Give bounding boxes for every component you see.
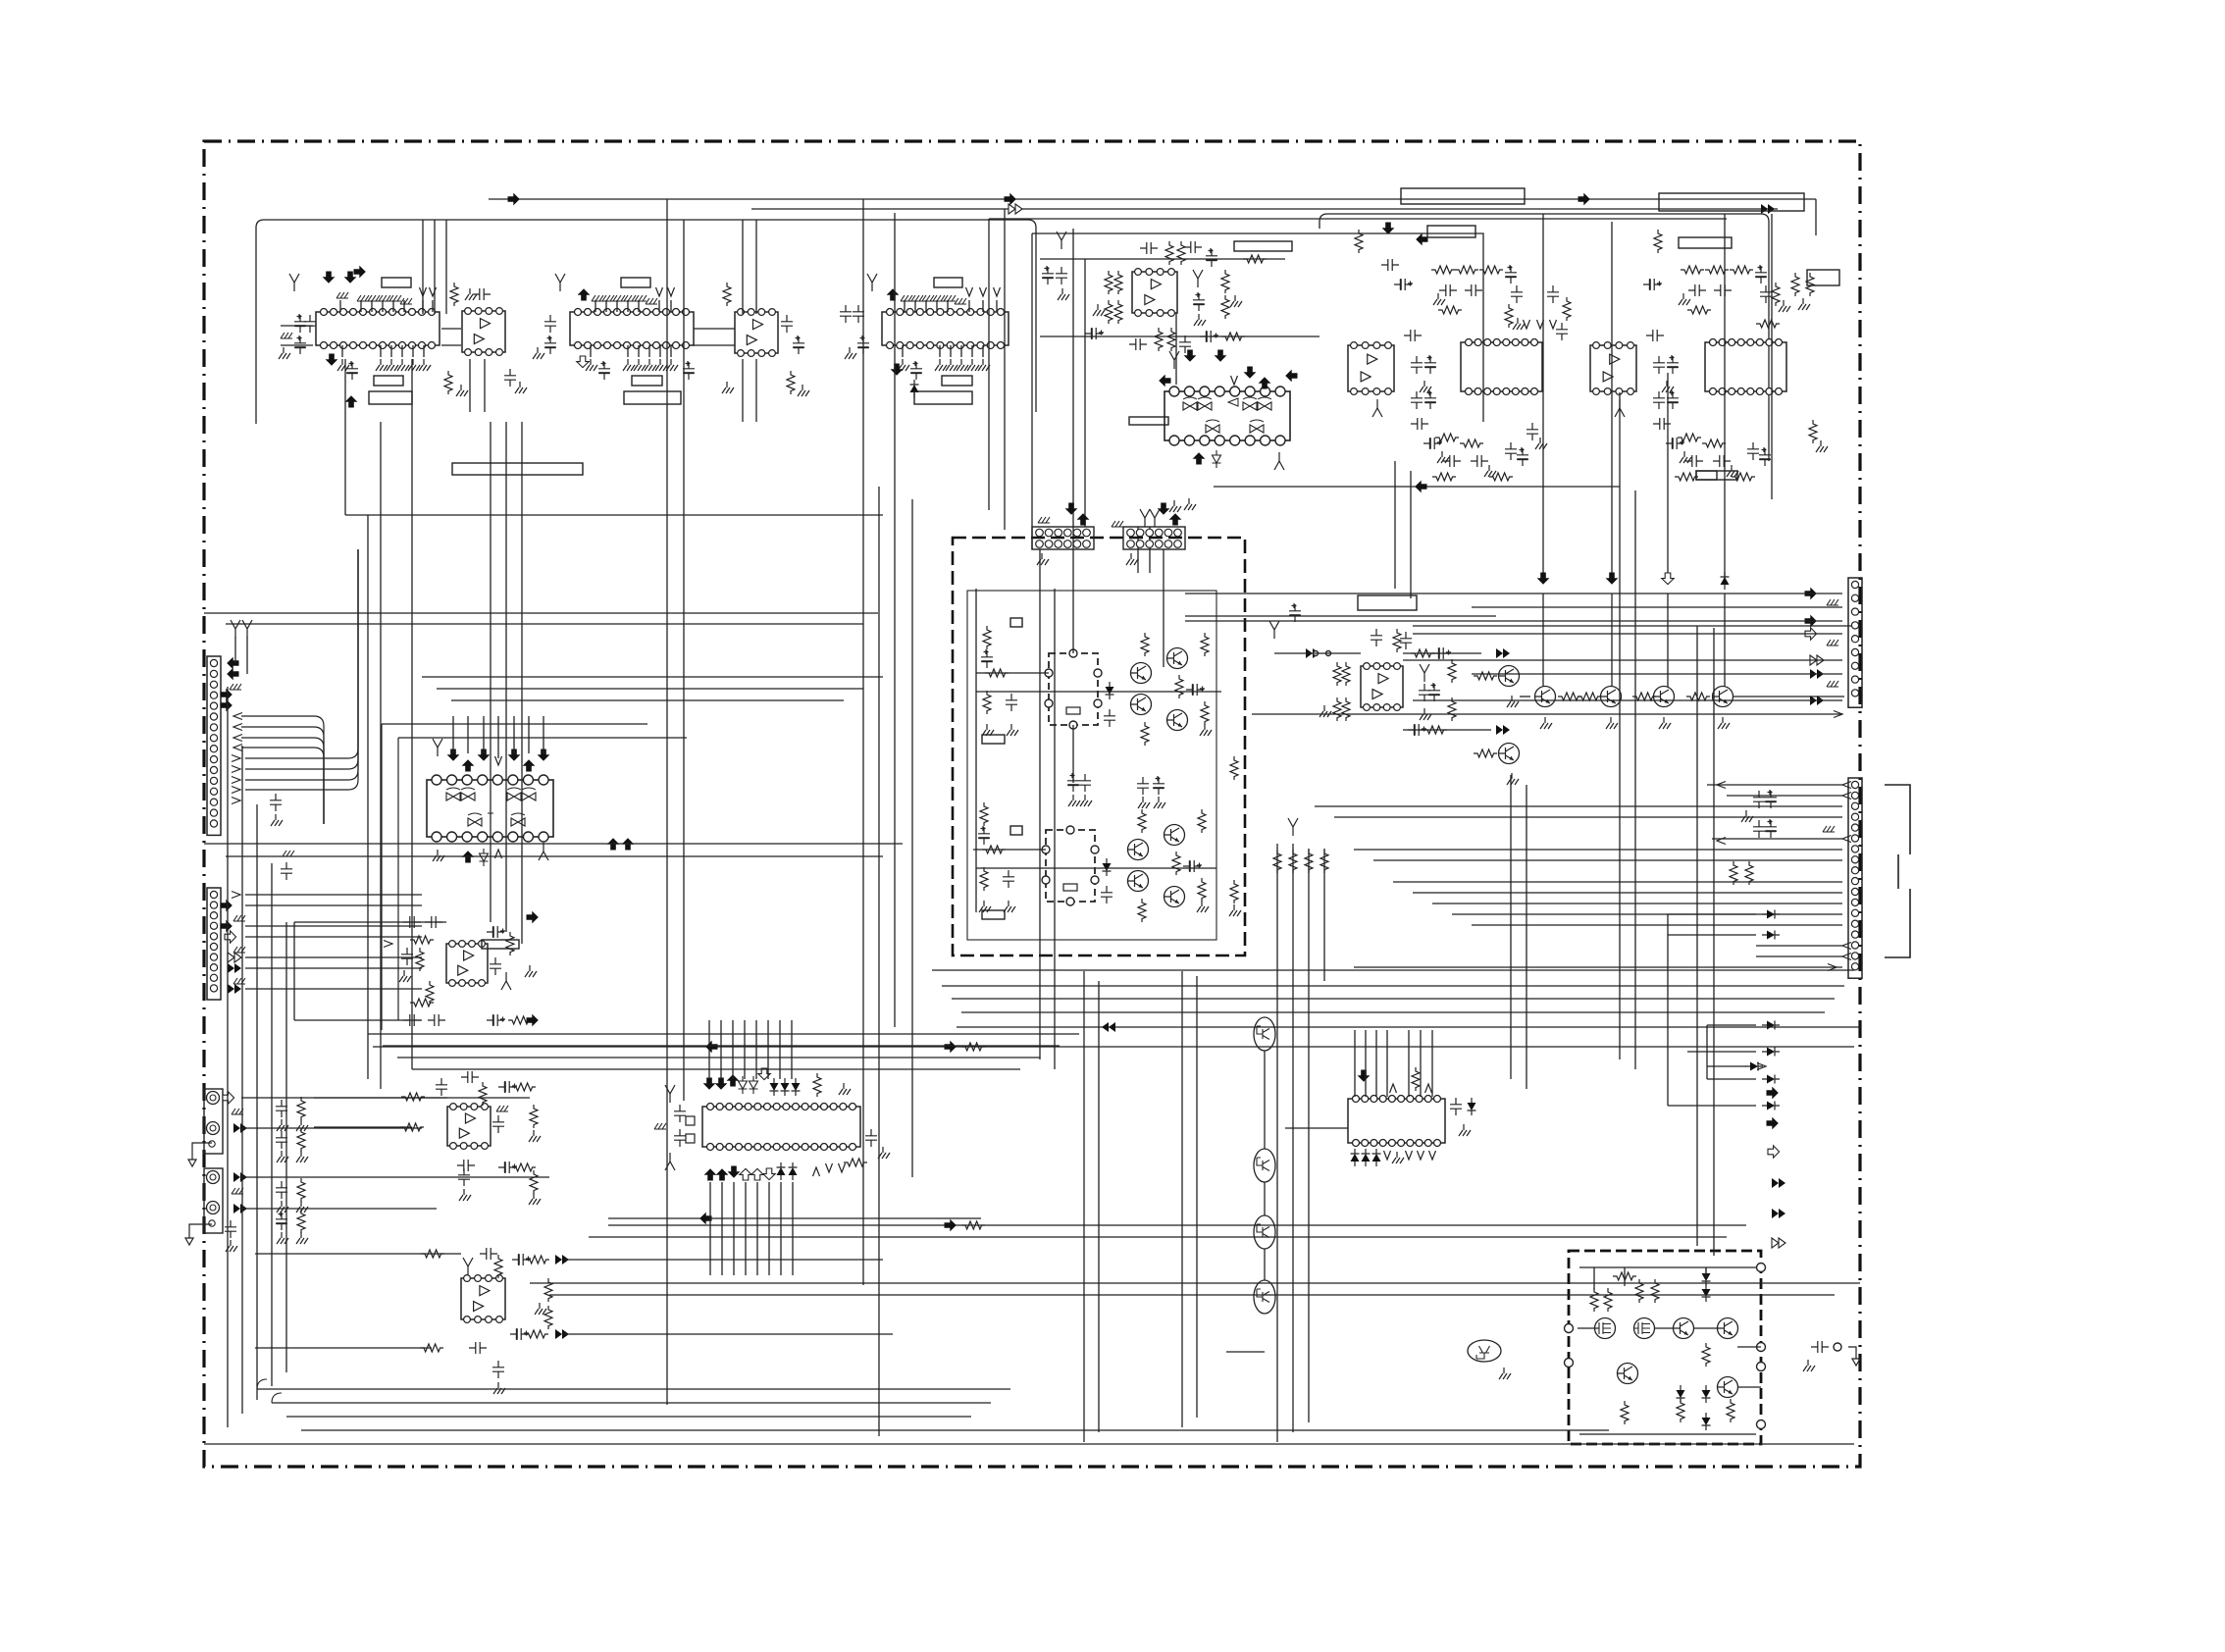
label IC105 part [914, 391, 972, 404]
IC103 bottom passives [577, 356, 695, 380]
J102 arrows [233, 1172, 247, 1182]
IC303 surroundings [400, 1071, 541, 1205]
label under IC105 [942, 376, 972, 386]
connector CN301 [1032, 527, 1094, 549]
wire misc center verticals [1083, 971, 1085, 1442]
IC105 left net [840, 274, 877, 359]
wire upper mid horizontals [422, 676, 883, 678]
wire IC303 nets [314, 1097, 447, 1099]
IC202 bottom symbols [1169, 500, 1181, 512]
IC301 bottom symbols [433, 850, 444, 861]
transistor Q601 [1674, 1318, 1694, 1339]
H top passives [1355, 223, 1571, 341]
op-amp IC302 [446, 941, 488, 987]
right diode column [1762, 910, 1780, 919]
op-amp IC102 [462, 308, 505, 356]
label over IC105 [934, 278, 962, 287]
connector CN401 [1848, 578, 1862, 707]
wire top bus 3 [989, 218, 1727, 220]
label IC202 part [1129, 417, 1168, 425]
wire cluster H frame [1319, 214, 1769, 461]
IC202 below arrows [1193, 450, 1221, 468]
wire IC101-IC102 link [441, 328, 461, 330]
wire IC201 box [1032, 233, 1483, 422]
wire RY301 caps below [1067, 773, 1079, 792]
wire IC306 verticals up [708, 1020, 710, 1079]
wire center box inner loop [967, 591, 1216, 940]
IC501 right [1450, 1098, 1476, 1136]
wire jack feeds [241, 1097, 530, 1099]
label RY302a [1010, 826, 1022, 835]
wire bottom long rails [608, 1224, 1746, 1226]
wire IC202 drop lines [1072, 229, 1074, 549]
RY301 left passives [981, 626, 1018, 736]
label box IC101 part no [369, 391, 412, 404]
photo transistor PH3 [1254, 1215, 1275, 1249]
I top passives [1643, 230, 1814, 328]
wire top bus 2 [751, 208, 1778, 210]
label I bottom [1696, 471, 1737, 480]
wire IC306 verticals down [709, 1182, 711, 1275]
overall board dashed border [204, 141, 1860, 1467]
RY302 diode/cap [1101, 858, 1112, 903]
op-amp IC303 [447, 1104, 491, 1150]
IC305 surroundings [420, 1248, 569, 1394]
transistor Q602 [1718, 1318, 1738, 1339]
transistor Q501 oval [1468, 1340, 1501, 1362]
wire legend feed [1707, 1065, 1746, 1067]
right cap cluster [1717, 782, 1777, 845]
H between ICs [1372, 330, 1436, 417]
wire arrows on bus [508, 193, 520, 206]
wire far right cap + terminal [1811, 1341, 1829, 1353]
IC202 internal VCA cells [1183, 397, 1271, 433]
transistor Q304 [1167, 710, 1188, 731]
jack RC filters [276, 1097, 308, 1244]
wire center-right horizontals [1274, 652, 1361, 654]
FET M2 [1634, 1318, 1655, 1339]
label under IC103 [632, 376, 662, 386]
wire IC103 pin stubs top [595, 300, 596, 312]
IC302 surroundings [384, 911, 539, 1027]
wire transistor row verticals [1542, 594, 1544, 687]
CN101 antennas [231, 620, 240, 638]
wire IC301 loops [382, 724, 687, 1030]
photo transistor PH4 [1254, 1280, 1275, 1314]
wire top mid drop [988, 219, 990, 510]
bottom verticals right [1276, 844, 1278, 1442]
connector CN402 [1848, 778, 1862, 978]
relay RY302 dashed [1042, 826, 1099, 905]
dashed sub-board box [953, 538, 1245, 955]
IC501 top arrows [1358, 1070, 1371, 1082]
wire right diode links [1668, 913, 1756, 915]
dashed motor module box [1569, 1251, 1761, 1444]
op-amp IC401 [1361, 663, 1403, 711]
CN101 cap [270, 794, 283, 826]
wire IC102 verticals [422, 220, 424, 314]
wire fat arrows right of IC301 [607, 838, 620, 850]
IC101 left input net [279, 274, 316, 359]
wire right section horizontals [1214, 486, 1620, 488]
wire bottom left risers [257, 1379, 282, 1403]
IC103 left net [533, 274, 565, 359]
wire top bus 1 [489, 198, 1816, 200]
box right resistors [1229, 756, 1241, 916]
label over I [1659, 193, 1804, 211]
IC202 top arrows [1184, 350, 1197, 362]
CN301/2 arrows + grounds [1065, 503, 1078, 515]
CN401 arrows [1805, 588, 1817, 600]
wire misc right verticals [1510, 775, 1512, 1079]
wire IC305 nets [255, 1253, 461, 1255]
wire IC105 pin stubs bottom [902, 345, 904, 357]
J101 ground drop [188, 1143, 212, 1166]
H bus arrows [1537, 573, 1550, 585]
label small H-b [1696, 471, 1717, 480]
op-amp IC205 [1590, 342, 1636, 395]
IC501 bottom diodes [1351, 1149, 1360, 1166]
wire mid horizontals left [345, 514, 883, 516]
transistor Q308 [1164, 887, 1185, 907]
IC105 bottom passives [891, 359, 990, 397]
label I right [1807, 270, 1839, 285]
relay RY301 dashed [1045, 649, 1102, 729]
label box head block [452, 463, 583, 475]
quad resistors under antenna [1273, 818, 1328, 873]
op-amp IC203 [1348, 342, 1394, 395]
wire middle long horizontals [204, 843, 903, 845]
legend arrow row [1745, 1062, 1785, 1249]
CN402 bracket [1885, 785, 1910, 957]
wire IC104 verticals [742, 220, 744, 314]
FET M1 [1595, 1318, 1616, 1339]
connector CN102 [207, 888, 221, 1000]
wire mid rail with arrows [373, 1046, 1854, 1048]
IC301 top arrows [447, 749, 460, 761]
J102 cap [225, 1220, 237, 1252]
wire CN101 curved fanout [241, 716, 324, 824]
label RY301 part [982, 735, 1005, 744]
IC IC101 bias amp [316, 309, 440, 349]
IC201 surroundings [1042, 232, 1267, 353]
label RY302 part [982, 910, 1005, 919]
photo transistor PH2 [1254, 1149, 1275, 1182]
wire mid-page horizontals [368, 1033, 1079, 1035]
label IC302 part [482, 940, 519, 949]
wire q row to right [1733, 696, 1844, 697]
IC401 small circles [1314, 651, 1319, 656]
RY301 right passives [1141, 633, 1212, 746]
module top resistors [1590, 1272, 1659, 1312]
label under IC101 [374, 376, 403, 386]
IC401 surroundings [1269, 603, 1510, 757]
IC101 fat arrows top [323, 272, 336, 284]
transistor Q401 [1499, 666, 1520, 687]
wire IC501 verticals [1354, 1030, 1356, 1097]
wire bottom nested rails [257, 1388, 1010, 1390]
I between ICs [1615, 330, 1679, 417]
I bus arrows [1662, 573, 1674, 585]
op-amp IC305 [461, 1275, 505, 1323]
IC IC105 rec amp [882, 309, 1009, 349]
label IC201 part [1234, 241, 1292, 251]
wire IC101 links [281, 325, 313, 327]
IC IC501 motor driver [1348, 1096, 1445, 1147]
wire IC302 nets [294, 921, 446, 923]
wire top-left loop [256, 220, 1036, 424]
label box over IC103 [621, 278, 650, 287]
RY301 diode/cap [1104, 682, 1115, 727]
transistor row resistors [1558, 693, 1710, 700]
wire IC306 left arrow line [608, 1217, 981, 1219]
label RY301a [1010, 618, 1022, 627]
IC101 top passives [336, 287, 437, 304]
module lower parts [1621, 1343, 1734, 1430]
label box IC103 part [624, 391, 681, 404]
IC306 arrows above [703, 1078, 716, 1090]
wire relay internal buses [976, 691, 1221, 693]
transistor row Q403-Q406 [1535, 687, 1556, 707]
wire left-section verticals [344, 359, 346, 515]
J101 arrows [223, 1092, 234, 1104]
transistor Q307 [1164, 825, 1185, 846]
wire CN102 fanout [245, 894, 422, 896]
RCA jack J102 [204, 1168, 223, 1233]
wire CN402 feeds [1707, 784, 1842, 786]
CN101 pin arrows [227, 657, 238, 670]
IC IC204 filter [1461, 339, 1542, 395]
IC103 top passives [578, 287, 675, 304]
transistor Q402 [1499, 744, 1520, 764]
module terminals [1757, 1264, 1766, 1272]
IC IC202 VCA [1164, 387, 1290, 445]
IC306 right [844, 1129, 890, 1166]
IC104 passives [722, 283, 809, 396]
RCA jack J101 [204, 1089, 223, 1154]
wire left vertical bundle [227, 687, 229, 1427]
RY302 left passives [978, 802, 1015, 912]
connector CN101 [207, 656, 221, 835]
transistor Q301 [1131, 663, 1152, 684]
label I1 [1679, 237, 1732, 248]
CN102 cap top [281, 851, 294, 880]
module top diodes [1702, 1268, 1711, 1286]
right resistor pair [1730, 861, 1753, 885]
transistor Q303 [1167, 648, 1188, 669]
IC IC103 EQ amp [570, 309, 694, 349]
wire IC105 pin stubs top [904, 300, 906, 312]
label box R-CH [382, 278, 411, 287]
op-amp IC201 [1132, 269, 1177, 317]
IC IC206 filter [1705, 339, 1786, 395]
RY302 right passives [1138, 809, 1209, 922]
IC301 cells [446, 788, 536, 826]
wire IC101 pin stubs top [339, 300, 341, 312]
wire I verticals [1667, 373, 1669, 579]
CN102 pin arrows [232, 892, 240, 899]
wire diag bundle top-left to middle [411, 359, 413, 1069]
label center right [1358, 595, 1417, 610]
op-amp IC104 [735, 309, 778, 357]
IC105 top passives [887, 287, 1001, 304]
IC101 bottom passives [326, 354, 431, 408]
wire IC101 pin stubs bottom [341, 345, 343, 357]
transistor Q603 [1618, 1364, 1638, 1384]
transistor Q305 [1128, 840, 1149, 860]
wire IC103 pin stubs bottom [590, 345, 592, 357]
label H1 [1427, 226, 1475, 237]
IC306 arrows below [704, 1168, 717, 1180]
wire right edge drops [1619, 392, 1621, 487]
wire CN401 feed lines [1185, 593, 1842, 594]
IC IC301 VCA [427, 775, 553, 842]
IC306 squares [686, 1116, 695, 1125]
label over H [1401, 188, 1525, 204]
wire mid horizontals lower [957, 1026, 1860, 1028]
transistor Q306 [1128, 871, 1149, 892]
wire IC301 verticals [452, 716, 454, 753]
wire IC103 links [694, 328, 735, 330]
IC102 passives [444, 283, 527, 396]
photo transistor PH1 [1254, 1017, 1275, 1051]
CN402 arrows [1842, 782, 1851, 789]
wire module internals [1579, 1266, 1756, 1268]
IC IC306 Dolby [702, 1104, 860, 1151]
IC306 left [654, 1085, 686, 1170]
transistor Q604 [1718, 1377, 1738, 1398]
wire PH wires [1264, 1051, 1266, 1149]
I bottom passives [1653, 418, 1828, 481]
wire H verticals [1542, 214, 1544, 579]
H bottom passives [1411, 418, 1547, 481]
connector CN302 [1123, 527, 1185, 549]
transistor Q302 [1131, 695, 1152, 715]
wire mid verticals center [1039, 549, 1041, 1059]
J102 ground drop [185, 1224, 212, 1245]
